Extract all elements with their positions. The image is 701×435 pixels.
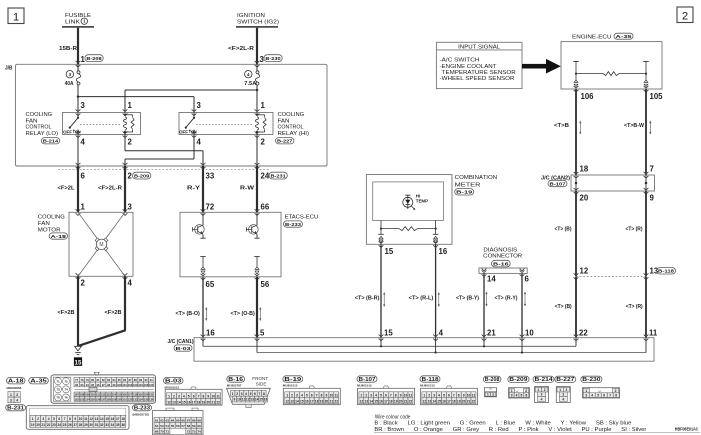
svg-text:72: 72 bbox=[187, 429, 191, 433]
svg-text:COOLING: COOLING bbox=[38, 214, 65, 220]
svg-text:B-118: B-118 bbox=[422, 377, 439, 383]
svg-text:99: 99 bbox=[112, 383, 115, 387]
svg-text:4: 4 bbox=[183, 394, 185, 398]
label cooling fan control relay LO bbox=[26, 112, 59, 137]
bus crossing pin 4 bbox=[433, 335, 438, 341]
wire fuse4 to junction bbox=[256, 85, 258, 90]
svg-text:6: 6 bbox=[525, 275, 530, 284]
svg-text:B-16: B-16 bbox=[228, 377, 243, 383]
svg-text:72: 72 bbox=[64, 379, 68, 383]
svg-text:16: 16 bbox=[264, 398, 268, 402]
svg-text:ON: ON bbox=[75, 130, 82, 135]
svg-text:87: 87 bbox=[128, 378, 131, 382]
svg-text:76: 76 bbox=[64, 396, 68, 400]
pin 1 label LO relay coil bbox=[128, 101, 133, 110]
svg-text:124: 124 bbox=[85, 397, 90, 401]
svg-text:72: 72 bbox=[206, 203, 215, 212]
svg-text:8: 8 bbox=[395, 393, 397, 397]
svg-text:36: 36 bbox=[121, 423, 125, 427]
svg-text:2: 2 bbox=[615, 389, 617, 393]
svg-text:15: 15 bbox=[182, 400, 186, 404]
svg-text:15: 15 bbox=[385, 247, 394, 256]
bus pin 21 label bbox=[487, 329, 496, 338]
wire fuse3 node to LO relay switch pin 3 bbox=[77, 97, 79, 113]
svg-text:COMBINATION: COMBINATION bbox=[455, 175, 497, 181]
svg-text:B-233: B-233 bbox=[134, 406, 150, 412]
label cooling fan motor bbox=[38, 214, 65, 233]
svg-text:4: 4 bbox=[245, 392, 247, 396]
ETACS pin 72 label bbox=[206, 203, 215, 212]
wire <F>2L bbox=[77, 166, 79, 212]
svg-text:METER: METER bbox=[455, 182, 481, 188]
svg-text:R-W: R-W bbox=[240, 186, 255, 192]
meter bottom crossings bbox=[379, 241, 438, 247]
svg-text:TEMP: TEMP bbox=[416, 199, 428, 204]
svg-text:74: 74 bbox=[64, 388, 68, 392]
relay cooling fan control (HI) B-227 bbox=[179, 109, 273, 137]
bus crossing pin 21 bbox=[482, 335, 487, 341]
svg-text:FRONT: FRONT bbox=[252, 376, 268, 381]
svg-text:DIAGNOSIS: DIAGNOSIS bbox=[483, 247, 517, 253]
svg-text:3: 3 bbox=[541, 393, 543, 397]
svg-text:27: 27 bbox=[73, 423, 77, 427]
svg-text:21: 21 bbox=[42, 423, 46, 427]
svg-text:2: 2 bbox=[261, 137, 266, 146]
svg-text:13: 13 bbox=[364, 399, 368, 403]
connector label B-209 bbox=[133, 172, 151, 179]
svg-text:14: 14 bbox=[432, 399, 436, 403]
svg-text:9: 9 bbox=[74, 417, 76, 421]
wire R-W bbox=[256, 166, 258, 212]
svg-text:1: 1 bbox=[81, 203, 86, 212]
svg-text:COOLING: COOLING bbox=[26, 112, 53, 118]
svg-text:2: 2 bbox=[525, 389, 527, 393]
svg-text:105: 105 bbox=[650, 92, 664, 101]
svg-text:21: 21 bbox=[404, 399, 408, 403]
bus stub pin 16 bbox=[202, 338, 204, 347]
svg-text:5: 5 bbox=[260, 329, 265, 338]
svg-text:11: 11 bbox=[335, 393, 339, 397]
svg-text:13: 13 bbox=[250, 398, 254, 402]
svg-text:ETACS-ECU: ETACS-ECU bbox=[285, 215, 319, 221]
svg-text:24: 24 bbox=[57, 423, 61, 427]
connector pinout B-16 bbox=[227, 376, 271, 408]
svg-text:4: 4 bbox=[438, 393, 440, 397]
svg-text:7: 7 bbox=[390, 393, 392, 397]
svg-text:FAN: FAN bbox=[38, 221, 50, 227]
bus stub pin 5 bbox=[256, 338, 258, 353]
svg-text:13: 13 bbox=[95, 417, 99, 421]
ground symbol bbox=[75, 346, 82, 354]
svg-text:18: 18 bbox=[452, 399, 456, 403]
wire label <F>2L-R mid bbox=[98, 186, 122, 192]
svg-text:3: 3 bbox=[69, 72, 72, 77]
connector crossing B-208 pin 1 bbox=[76, 61, 81, 67]
bus crossing pin 16 bbox=[201, 335, 206, 341]
svg-text:4: 4 bbox=[48, 417, 50, 421]
bus stub pin 22 bbox=[575, 338, 577, 347]
svg-text:15: 15 bbox=[259, 398, 263, 402]
svg-text:20: 20 bbox=[325, 399, 329, 403]
connector label B-231 inline bbox=[269, 172, 287, 179]
svg-text:89: 89 bbox=[139, 378, 142, 382]
svg-text:11: 11 bbox=[84, 417, 88, 421]
svg-text:3: 3 bbox=[42, 417, 44, 421]
svg-text:104: 104 bbox=[138, 383, 143, 387]
svg-text:106: 106 bbox=[581, 92, 595, 101]
cooling fan motor A-18 box bbox=[69, 209, 133, 279]
svg-text:21: 21 bbox=[487, 329, 496, 338]
label J/C CAN1 bbox=[168, 339, 194, 345]
svg-text:13: 13 bbox=[290, 399, 294, 403]
connector label B-214 bbox=[41, 138, 59, 144]
wire label <F>2L bbox=[58, 186, 76, 192]
meter internal stub 16 bbox=[433, 220, 438, 242]
svg-text:B-03: B-03 bbox=[176, 346, 192, 351]
wire label <T>(B-O) bbox=[176, 311, 200, 317]
svg-text:2: 2 bbox=[428, 393, 430, 397]
svg-text:2: 2 bbox=[544, 388, 546, 392]
svg-text:52: 52 bbox=[155, 424, 159, 428]
pin 2 label HI relay coil bbox=[261, 137, 266, 146]
node junction below fuse 3 bbox=[77, 95, 80, 98]
svg-text:20: 20 bbox=[580, 194, 589, 203]
svg-text:67: 67 bbox=[187, 418, 191, 422]
input signal box bbox=[436, 42, 522, 88]
svg-text:B-230: B-230 bbox=[582, 377, 600, 383]
svg-text:62: 62 bbox=[160, 418, 164, 422]
svg-text:5: 5 bbox=[250, 392, 252, 396]
label cooling fan control relay HI bbox=[278, 112, 310, 137]
svg-text:14: 14 bbox=[369, 399, 373, 403]
svg-text:1: 1 bbox=[168, 394, 170, 398]
connector pinout B-231 bbox=[6, 405, 129, 430]
svg-text:2: 2 bbox=[37, 417, 39, 421]
svg-text:69: 69 bbox=[197, 418, 201, 422]
engine ECU A-35 box bbox=[561, 42, 662, 89]
wire <T>(R-L) bbox=[435, 244, 437, 337]
ignition switch symbol bbox=[236, 13, 279, 27]
wire label R-W bbox=[240, 186, 255, 192]
connector label B-107 inline bbox=[548, 180, 567, 186]
motor M symbol bbox=[78, 212, 125, 276]
svg-text:1: 1 bbox=[537, 388, 539, 392]
engine ECU internal stub right bbox=[643, 62, 648, 87]
svg-text:<T> (B): <T> (B) bbox=[555, 227, 572, 233]
svg-text:6: 6 bbox=[58, 417, 60, 421]
svg-text:18: 18 bbox=[389, 399, 393, 403]
svg-text:13: 13 bbox=[172, 400, 176, 404]
svg-text:MU801513: MU801513 bbox=[420, 384, 435, 388]
connector label B-208 bbox=[85, 55, 103, 63]
svg-text:FAN: FAN bbox=[278, 118, 290, 124]
svg-text:64: 64 bbox=[171, 418, 175, 422]
wire label <F>2B left bbox=[58, 310, 75, 316]
bus crossing pin 15 bbox=[379, 335, 384, 341]
wire <T>(O-B) bbox=[256, 277, 258, 338]
bus pin 10 label bbox=[525, 329, 534, 338]
svg-text:25: 25 bbox=[63, 423, 67, 427]
svg-text:17: 17 bbox=[192, 400, 196, 404]
svg-text:15: 15 bbox=[105, 417, 109, 421]
svg-text:119: 119 bbox=[138, 393, 143, 397]
ETACS-ECU B-233 box bbox=[180, 209, 281, 280]
junction block J/B box bbox=[5, 64, 327, 166]
wire label <F>2L-R bbox=[228, 46, 254, 52]
svg-text:129: 129 bbox=[112, 397, 117, 401]
svg-text:81: 81 bbox=[96, 378, 99, 382]
ETACS internal stub pin 56 bbox=[254, 257, 259, 275]
bus crossing pin 22 bbox=[574, 335, 579, 341]
svg-text:B-209: B-209 bbox=[509, 377, 527, 383]
svg-text:68: 68 bbox=[192, 418, 196, 422]
svg-text:71: 71 bbox=[166, 429, 170, 433]
svg-text:ENGINE-ECU: ENGINE-ECU bbox=[572, 35, 612, 41]
connector pinout B-107 bbox=[357, 376, 415, 405]
svg-text:125: 125 bbox=[90, 397, 95, 401]
svg-text:120: 120 bbox=[144, 393, 149, 397]
svg-text:20: 20 bbox=[399, 399, 403, 403]
svg-text:<F>2B: <F>2B bbox=[105, 310, 122, 316]
wire colour code row 2 bbox=[374, 427, 646, 433]
svg-text:<T> (O-B): <T> (O-B) bbox=[231, 311, 255, 317]
svg-text:<T> (B-O): <T> (B-O) bbox=[176, 311, 200, 317]
pin 18 label bbox=[580, 165, 589, 174]
svg-text:9: 9 bbox=[650, 194, 655, 203]
input signal arrow bbox=[522, 59, 561, 74]
svg-text:3: 3 bbox=[433, 393, 435, 397]
svg-text:FAN: FAN bbox=[26, 118, 38, 124]
svg-text:59: 59 bbox=[192, 424, 196, 428]
svg-text:COOLING: COOLING bbox=[278, 112, 305, 118]
svg-text:66: 66 bbox=[261, 203, 270, 212]
twisted arrow R-L bbox=[438, 292, 440, 307]
svg-text:83: 83 bbox=[107, 378, 110, 382]
svg-text:4: 4 bbox=[81, 137, 86, 146]
svg-text:3: 3 bbox=[511, 393, 513, 397]
svg-text:55: 55 bbox=[171, 424, 175, 428]
wire <T>(R) lower bbox=[645, 276, 647, 337]
label ETACS-ECU bbox=[285, 215, 319, 221]
svg-text:7: 7 bbox=[650, 165, 654, 174]
svg-text:2: 2 bbox=[365, 393, 367, 397]
diagnosis connector B-16 box bbox=[479, 268, 527, 277]
svg-text:135: 135 bbox=[144, 397, 149, 401]
connector label A-18 bbox=[49, 233, 67, 239]
svg-text:100: 100 bbox=[117, 383, 122, 387]
svg-text:MU803787: MU803787 bbox=[227, 384, 242, 388]
svg-text:7: 7 bbox=[64, 417, 66, 421]
svg-text:15: 15 bbox=[75, 359, 82, 366]
svg-text:B-03: B-03 bbox=[165, 379, 182, 385]
svg-text:1: 1 bbox=[10, 393, 12, 397]
svg-text:11: 11 bbox=[216, 394, 220, 398]
svg-text:2: 2 bbox=[682, 11, 688, 23]
svg-text:CONTROL: CONTROL bbox=[26, 125, 52, 131]
svg-text:80: 80 bbox=[91, 378, 94, 382]
sheet marker 1 bbox=[8, 8, 24, 24]
svg-text:14: 14 bbox=[487, 275, 496, 284]
transistor Q2 in ETACS (pin 66) bbox=[246, 212, 259, 238]
J/C CAN2 B-107 box bbox=[571, 172, 655, 194]
svg-text:4: 4 bbox=[516, 393, 518, 397]
motor pin 2 label bbox=[81, 279, 86, 288]
svg-text:8: 8 bbox=[458, 393, 460, 397]
bus pin 4 label bbox=[439, 329, 444, 338]
svg-text:20: 20 bbox=[207, 400, 211, 404]
svg-text:18: 18 bbox=[315, 399, 319, 403]
pin 105 label bbox=[650, 92, 664, 101]
svg-text:6: 6 bbox=[385, 393, 387, 397]
connector pinout B-233 bbox=[132, 405, 203, 435]
wire label <T>B bbox=[554, 123, 569, 129]
svg-text:B-231: B-231 bbox=[7, 406, 24, 412]
wire <T>(B-Y) bbox=[483, 273, 485, 337]
connector pinout B-209 bbox=[508, 376, 530, 398]
ETACS pin 66 label bbox=[261, 203, 270, 212]
svg-text:66: 66 bbox=[181, 418, 185, 422]
svg-text:4: 4 bbox=[375, 393, 377, 397]
svg-text:3: 3 bbox=[241, 392, 243, 396]
transistor Q1 in ETACS (pin 72) bbox=[192, 212, 205, 238]
svg-text:B-19: B-19 bbox=[284, 377, 301, 383]
fuse 4 7.5A bbox=[244, 64, 259, 87]
svg-text:3: 3 bbox=[562, 393, 564, 397]
svg-text:17: 17 bbox=[447, 399, 451, 403]
svg-text:<T> (R): <T> (R) bbox=[626, 304, 643, 310]
svg-text:ON: ON bbox=[191, 130, 198, 135]
svg-text:TEMPERATURE SENSOR: TEMPERATURE SENSOR bbox=[442, 70, 516, 76]
svg-text:7: 7 bbox=[198, 394, 200, 398]
svg-text:3: 3 bbox=[81, 101, 86, 110]
svg-text:<T> (B-R): <T> (B-R) bbox=[355, 296, 380, 302]
svg-text:14: 14 bbox=[255, 398, 259, 402]
ground reference 15 bbox=[74, 357, 82, 366]
svg-text:OFF: OFF bbox=[63, 130, 72, 135]
svg-text:B-214: B-214 bbox=[43, 139, 59, 144]
svg-text:2: 2 bbox=[566, 388, 568, 392]
svg-text:7: 7 bbox=[453, 393, 455, 397]
bus pin 11 label bbox=[649, 329, 658, 338]
pin 4 label LO relay switch bbox=[81, 137, 86, 146]
bus pin 5 label bbox=[260, 329, 265, 338]
svg-text:61: 61 bbox=[155, 418, 159, 422]
connector pinout B-230 bbox=[581, 376, 620, 398]
pin 3 label HI relay switch bbox=[197, 101, 202, 110]
svg-text:115: 115 bbox=[117, 393, 122, 397]
svg-text:12: 12 bbox=[246, 398, 250, 402]
svg-text:6: 6 bbox=[254, 392, 256, 396]
svg-text:22: 22 bbox=[472, 399, 476, 403]
svg-text:116: 116 bbox=[122, 393, 127, 397]
motor pin 1 label bbox=[81, 203, 86, 212]
wire fuse3 node to HI relay switch pin 3 bbox=[78, 97, 194, 113]
wire colour code title bbox=[375, 414, 411, 420]
svg-text:132: 132 bbox=[128, 397, 133, 401]
connector label B-227 bbox=[276, 138, 294, 144]
svg-text:92: 92 bbox=[75, 383, 78, 387]
pin 12 label bbox=[580, 267, 589, 276]
svg-text:22: 22 bbox=[47, 423, 51, 427]
pin 3 label LO relay switch bbox=[81, 101, 86, 110]
svg-text:65: 65 bbox=[176, 418, 180, 422]
svg-text:33: 33 bbox=[105, 423, 109, 427]
HI TEMP warning lamp bbox=[403, 194, 428, 210]
svg-text:MU801515: MU801515 bbox=[357, 384, 372, 388]
svg-text:130: 130 bbox=[117, 397, 122, 401]
twisted pair arrow O-B bbox=[259, 307, 261, 321]
svg-text:1: 1 bbox=[559, 388, 561, 392]
svg-text:1: 1 bbox=[232, 392, 234, 396]
svg-text:19: 19 bbox=[394, 399, 398, 403]
svg-text:8: 8 bbox=[615, 393, 617, 397]
svg-text:111: 111 bbox=[96, 393, 101, 397]
svg-text:15: 15 bbox=[437, 399, 441, 403]
svg-text:A-18: A-18 bbox=[51, 234, 67, 239]
svg-text:109: 109 bbox=[85, 393, 90, 397]
svg-text:19: 19 bbox=[202, 400, 206, 404]
svg-text:122: 122 bbox=[74, 397, 79, 401]
svg-text:16: 16 bbox=[206, 329, 215, 338]
wire label R-Y bbox=[187, 186, 200, 192]
svg-text:105: 105 bbox=[144, 383, 149, 387]
svg-text:21: 21 bbox=[467, 399, 471, 403]
svg-text:33: 33 bbox=[206, 172, 215, 181]
separator line under colour code bbox=[374, 432, 700, 434]
svg-text:4: 4 bbox=[591, 393, 593, 397]
svg-text:28: 28 bbox=[79, 423, 83, 427]
svg-text:2: 2 bbox=[173, 394, 175, 398]
svg-text:57: 57 bbox=[181, 424, 185, 428]
svg-text:22: 22 bbox=[579, 329, 588, 338]
svg-text:MU801515: MU801515 bbox=[165, 385, 180, 389]
svg-text:102: 102 bbox=[128, 383, 133, 387]
svg-text:2: 2 bbox=[16, 393, 18, 397]
resistor inside meter bbox=[381, 227, 436, 231]
svg-text:14: 14 bbox=[295, 399, 299, 403]
bus pin 22 label bbox=[579, 329, 588, 338]
svg-text:<T> (B-Y): <T> (B-Y) bbox=[456, 296, 479, 302]
svg-text:4: 4 bbox=[247, 72, 250, 77]
svg-text:18: 18 bbox=[580, 165, 589, 174]
svg-text:1: 1 bbox=[360, 393, 362, 397]
wire 2L-R from ignition switch bbox=[256, 28, 258, 64]
svg-text:56: 56 bbox=[176, 424, 180, 428]
svg-text:B-208: B-208 bbox=[485, 377, 500, 383]
fusible link symbol bbox=[62, 13, 94, 27]
pin 1 of B-208 bbox=[81, 55, 86, 64]
wire <F>2B left bbox=[77, 276, 79, 346]
wire HI switch pin4 to J/B pin 2 bbox=[125, 135, 194, 167]
combination meter B-19 outer box bbox=[366, 175, 452, 245]
svg-text:9: 9 bbox=[400, 393, 402, 397]
engine ECU bottom crossings bbox=[574, 86, 649, 92]
svg-text:106: 106 bbox=[149, 383, 154, 387]
svg-text:12: 12 bbox=[167, 400, 171, 404]
meter pin 16 label bbox=[439, 247, 448, 256]
ETACS pin 56 label bbox=[261, 280, 270, 289]
svg-text:9: 9 bbox=[326, 393, 328, 397]
svg-text:56: 56 bbox=[261, 280, 270, 289]
svg-text:10: 10 bbox=[330, 393, 334, 397]
wire label <F>2B right bbox=[105, 310, 122, 316]
svg-text:1: 1 bbox=[13, 12, 19, 24]
svg-text:16: 16 bbox=[305, 399, 309, 403]
svg-text:118: 118 bbox=[133, 393, 138, 397]
wire label 15B-R bbox=[59, 46, 77, 52]
svg-text:1: 1 bbox=[128, 101, 133, 110]
svg-text:B-227: B-227 bbox=[556, 377, 574, 383]
